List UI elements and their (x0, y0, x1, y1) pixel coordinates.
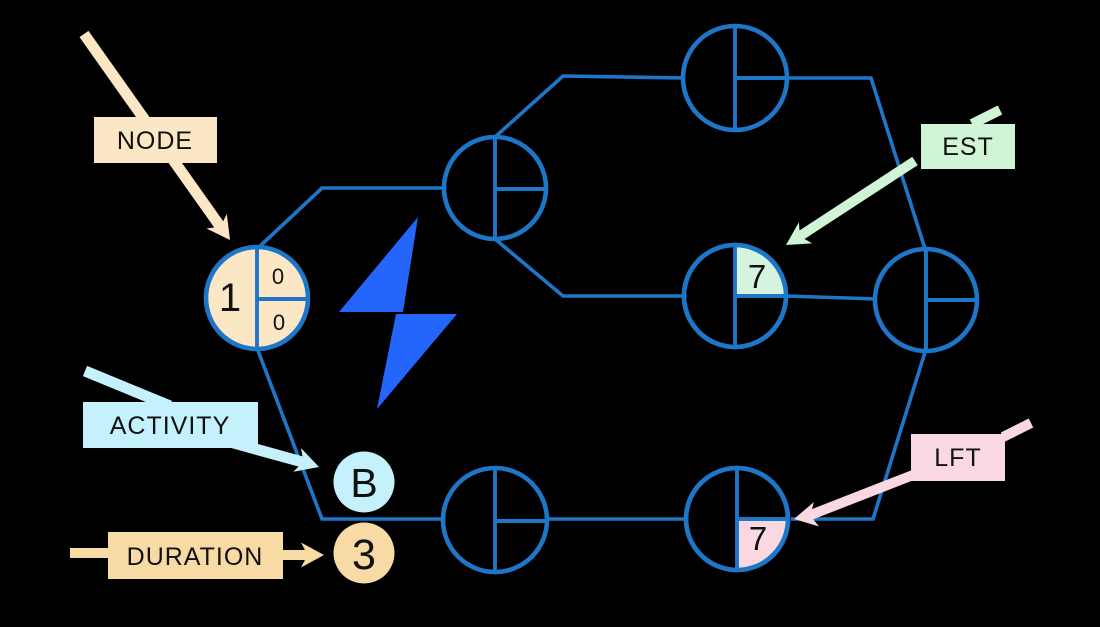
LFT label box (911, 434, 1005, 481)
wire node1 to top-left circle (258, 188, 446, 248)
svg-text:7: 7 (749, 520, 767, 557)
svg-text:EST: EST (942, 133, 994, 161)
NODE label box (94, 117, 217, 163)
wire bottom circle to LFT node (546, 517, 688, 521)
bottom-middle circle node (443, 468, 547, 572)
top-left circle node (444, 137, 546, 239)
wire node1 to bottom circle (257, 348, 445, 519)
svg-text:NODE: NODE (117, 127, 193, 155)
wire top-left circle to top circle (495, 76, 685, 137)
svg-text:7: 7 (748, 258, 766, 295)
LFT node with 7 (686, 468, 788, 570)
svg-text:LFT: LFT (934, 444, 981, 472)
LFT callout arrow (791, 423, 1031, 531)
svg-text:3: 3 (352, 531, 376, 579)
wire top circle to right circle (786, 78, 926, 252)
DURATION label box (108, 532, 283, 579)
DURATION callout arrow (70, 543, 324, 568)
svg-text:1: 1 (219, 276, 241, 320)
svg-text:ACTIVITY: ACTIVITY (110, 412, 231, 440)
svg-text:0: 0 (273, 310, 285, 335)
EST node with 7 (684, 245, 786, 347)
node 1 (start node) (206, 247, 308, 349)
duration 3 badge (334, 523, 395, 584)
right circle node (875, 249, 977, 351)
top circle node (683, 26, 787, 130)
ACTIVITY callout arrow (85, 371, 323, 479)
NODE callout arrow (84, 34, 240, 247)
wire top-left circle to EST node (495, 239, 686, 296)
wire right circle to LFT node (791, 349, 926, 519)
ACTIVITY label box (83, 402, 258, 448)
lightning bolt icon (339, 217, 457, 409)
EST label box (921, 124, 1015, 169)
svg-text:DURATION: DURATION (127, 543, 264, 571)
EST callout arrow (779, 110, 1000, 256)
svg-text:0: 0 (272, 264, 284, 289)
svg-text:B: B (350, 460, 377, 506)
wire EST node to right circle (786, 296, 877, 299)
activity B badge (334, 452, 395, 513)
